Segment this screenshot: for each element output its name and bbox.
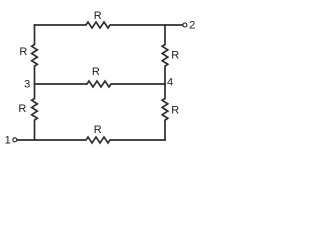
- svg-text:R: R: [92, 66, 100, 78]
- wire top with resistor R (top horizontal): [35, 22, 183, 28]
- svg-text:2: 2: [189, 19, 195, 31]
- svg-text:R: R: [94, 124, 102, 136]
- terminal 2 circle: [183, 23, 187, 27]
- svg-text:3: 3: [24, 79, 30, 91]
- wire bottom with resistor R (bottom horizontal): [17, 137, 165, 143]
- left rail: resistor R (upper) and resistor R (lower): [32, 25, 38, 140]
- svg-text:R: R: [19, 46, 27, 58]
- svg-text:4: 4: [167, 76, 173, 88]
- svg-text:R: R: [18, 103, 26, 115]
- svg-text:1: 1: [5, 135, 11, 147]
- right rail: resistor R (upper) and resistor R (lower): [162, 25, 168, 140]
- svg-text:R: R: [171, 49, 179, 61]
- wire middle with resistor R (middle horizontal): [35, 81, 166, 87]
- terminal 1 circle: [13, 138, 17, 142]
- svg-text:R: R: [171, 104, 179, 116]
- svg-text:R: R: [94, 10, 102, 22]
